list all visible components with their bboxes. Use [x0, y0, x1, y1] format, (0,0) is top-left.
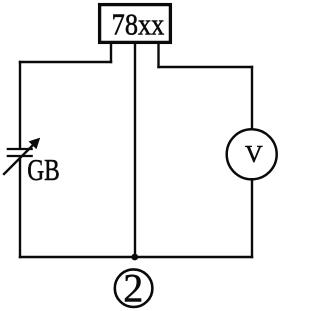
- wire: regulator left pin vertical: [110, 43, 112, 63]
- svg-text:V: V: [245, 141, 263, 168]
- svg-text:2: 2: [123, 266, 143, 311]
- wire: regulator center pin vertical down to bottom rail: [134, 43, 136, 257]
- junction dot at center pin and bottom rail: [131, 254, 138, 261]
- wire: top-right horizontal from right pin to right rail: [157, 66, 253, 68]
- battery GB bottom plate: [7, 155, 33, 157]
- battery GB variability arrow shaft: [3, 142, 36, 175]
- wire: bottom rail horizontal: [19, 256, 253, 258]
- wire: right rail lower segment from voltmeter to bottom rail: [251, 180, 253, 258]
- svg-text:GB: GB: [27, 153, 60, 187]
- wire: top-left horizontal from left rail to regulator left pin: [19, 61, 112, 63]
- node 2 circle: [115, 269, 153, 307]
- battery GB top plate: [7, 148, 33, 150]
- voltmeter PV circle: [227, 129, 277, 179]
- svg-text:78xx: 78xx: [112, 8, 165, 42]
- battery GB arrowhead: [29, 138, 41, 150]
- wire: left rail lower segment from battery bottom plate to bottom rail: [19, 156, 21, 258]
- wire: right rail upper segment down to voltmeter: [251, 66, 253, 129]
- voltage regulator U1 box: [100, 5, 171, 43]
- wire: left rail upper segment down to battery top plate: [19, 61, 21, 149]
- wire: regulator right pin vertical: [157, 43, 159, 68]
